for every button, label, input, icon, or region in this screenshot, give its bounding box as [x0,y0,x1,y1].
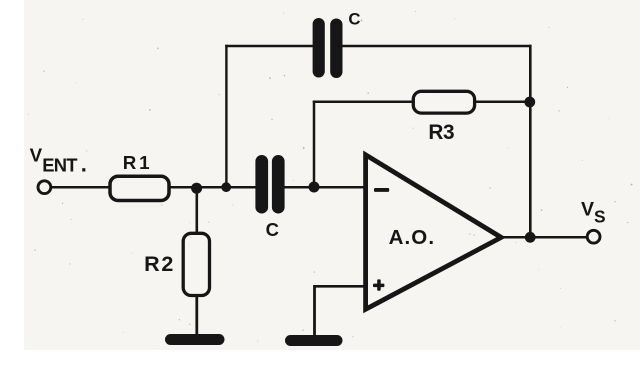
wire series capacitor to op-amp inverting input [284,186,366,189]
wire top feedback right segment [342,45,532,47]
resistor R1 [110,176,169,200]
op-amp minus input marker [374,188,389,192]
svg-text:C: C [348,10,360,29]
wire R3 riser at node C [313,101,316,188]
resistor R3 [413,91,474,113]
wire op-amp output to terminal [502,236,587,239]
wire non-inverting input to ground [313,285,316,338]
svg-text:R2: R2 [144,252,175,276]
capacitor C (series input) plate 1 [255,155,268,214]
svg-text:S: S [594,207,606,227]
label VS [581,199,606,227]
svg-text:R1: R1 [123,152,153,173]
output terminal VS [587,230,600,243]
wire input terminal to R1 [51,186,110,189]
wire R2 to ground [195,296,198,338]
label VENT [30,145,87,177]
input terminal VENT [38,181,51,194]
wire node C to R3 [313,100,413,103]
capacitor C (top feedback) plate 1 [313,18,325,78]
wire R2 branch down from node A [196,188,199,233]
node D junction R3 / feedback line [524,97,535,108]
wire right feedback drop to output node [529,45,532,237]
svg-text:C: C [266,219,279,240]
node A junction R1/R2 [191,183,202,194]
ground symbol (non-inverting input) [285,335,343,346]
svg-text:A.O.: A.O. [389,226,436,249]
svg-text:R3: R3 [428,121,454,144]
capacitor C (top feedback) plate 2 [330,19,342,79]
wire R3 to right feedback line [475,100,530,103]
op-amp plus input marker (horizontal bar) [373,284,384,288]
ground symbol (R2) [165,334,225,345]
node E output junction [525,232,536,243]
wire R1 to series capacitor [170,186,257,189]
capacitor C (series input) plate 2 [272,155,285,214]
op-amp plus input marker (vertical bar) [377,279,381,290]
node C junction R3 tap / inverting input [309,182,320,193]
svg-text:V: V [30,145,43,166]
node B junction feedback C tap [221,182,231,192]
svg-text:ENT: ENT [42,154,78,175]
wire op-amp non-inverting input [315,285,366,288]
resistor R2 [183,233,209,295]
op-amp U1 [366,155,502,309]
wire feedback riser at node B [225,45,227,187]
svg-text:.: . [81,151,87,176]
wire top feedback left segment [225,45,313,47]
svg-text:V: V [581,199,594,221]
